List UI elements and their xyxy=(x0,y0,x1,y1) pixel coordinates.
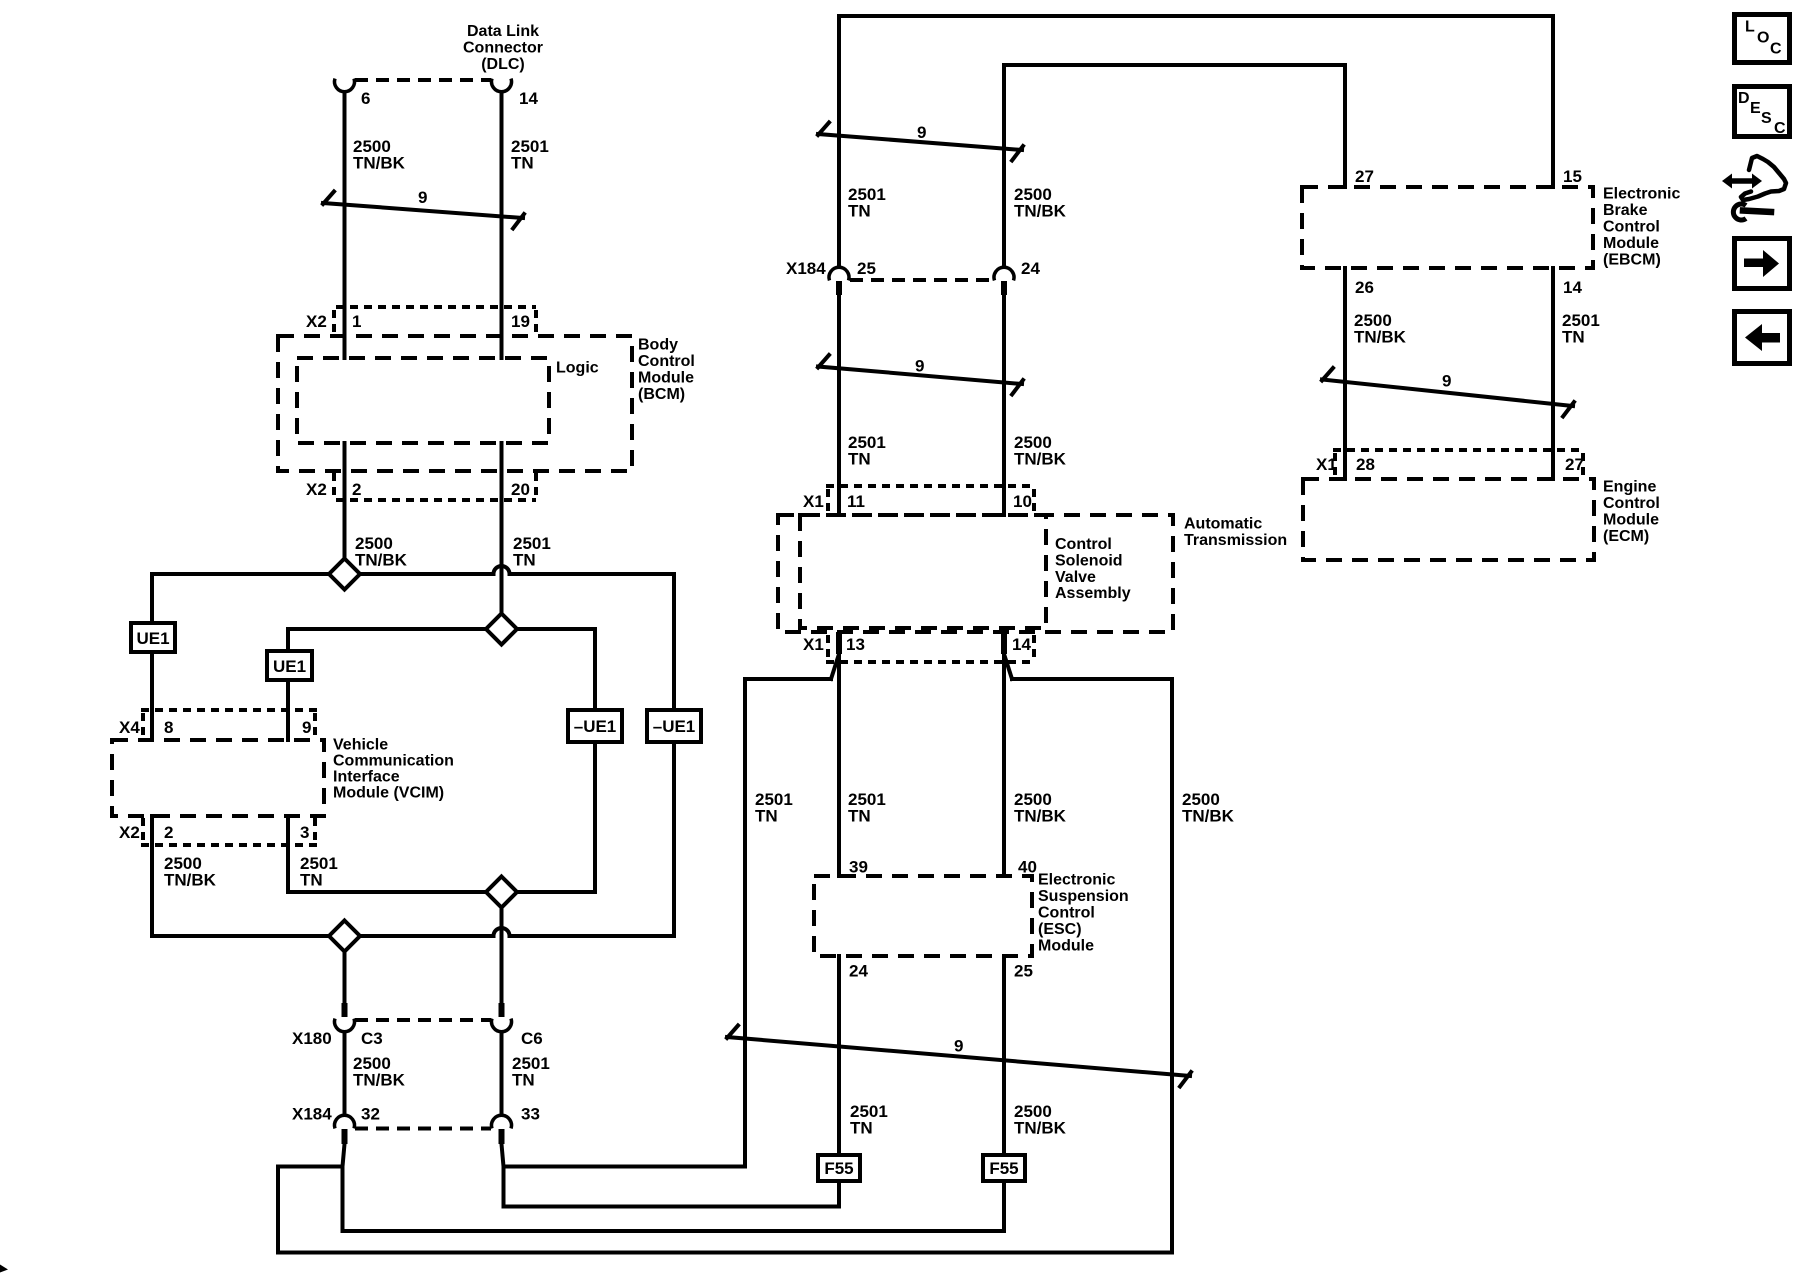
svg-text:25: 25 xyxy=(1014,962,1033,981)
wire 2500 TN/BK splice down to X180 xyxy=(343,952,347,1004)
label Automatic Transmission xyxy=(1184,516,1287,550)
terminator box -UE1 outer xyxy=(647,710,701,742)
pin 14 label EBCM xyxy=(1563,278,1582,297)
twisted pair symbol with 9 xyxy=(323,192,524,229)
terminal stub X184 pin 33 xyxy=(499,1129,505,1144)
svg-text:20: 20 xyxy=(511,480,530,499)
svg-text:BodyControlModule(BCM): BodyControlModule(BCM) xyxy=(638,337,695,404)
connector strip X2 bottom of BCM xyxy=(334,473,536,500)
wire riser 2501 TN to transmission pin 13 xyxy=(745,654,839,1167)
X184 connector dashed mating line xyxy=(355,1127,491,1131)
pin 32 label xyxy=(361,1105,380,1124)
svg-text:40: 40 xyxy=(1018,858,1037,877)
wire bus to F55 2501 xyxy=(504,1205,840,1209)
svg-text:1: 1 xyxy=(352,312,361,331)
svg-text:2501TN: 2501TN xyxy=(755,790,793,826)
label X184 center xyxy=(786,259,826,278)
wire label 2501 TN below EBCM xyxy=(1562,311,1600,347)
connector X184 center cup pin 24 xyxy=(994,267,1014,280)
wire top link 2501 TN to EBCM pin 15 xyxy=(839,16,1553,266)
wire 2500 TN/BK X180 to X184 pin 32 xyxy=(343,1033,347,1114)
svg-text:X2: X2 xyxy=(306,480,327,499)
svg-text:ElectronicSuspensionControl(ES: ElectronicSuspensionControl(ESC)Module xyxy=(1038,872,1129,955)
svg-text:2501TN: 2501TN xyxy=(300,854,338,890)
svg-text:2500TN/BK: 2500TN/BK xyxy=(1014,1102,1067,1138)
wire label 2501 TN below VCIM xyxy=(300,854,338,890)
svg-text:2501TN: 2501TN xyxy=(1562,311,1600,347)
twisted pair symbol above transmission with 9 xyxy=(818,355,1023,395)
terminal stub X180 C6 xyxy=(499,1003,505,1017)
wire label 2500 TN/BK below EBCM xyxy=(1354,311,1407,347)
svg-text:2500TN/BK: 2500TN/BK xyxy=(1014,185,1067,221)
wire label 2501 TN above F55 xyxy=(850,1102,888,1138)
icon car with double arrow and wrench xyxy=(1722,156,1786,220)
connector X184 center cup pin 25 xyxy=(829,267,849,280)
wire 2501 TN X180 to X184 pin 33 xyxy=(500,1033,504,1114)
svg-text:3: 3 xyxy=(300,823,309,842)
svg-text:11: 11 xyxy=(847,492,865,511)
svg-text:–UE1: –UE1 xyxy=(574,717,617,736)
svg-text:C: C xyxy=(1770,41,1782,58)
splice diamond on inner top bus 2501 xyxy=(486,614,517,645)
wire inner bus top horizontal xyxy=(288,627,595,631)
wire 2500 TN/BK transmission pin 14 to ESC pin 40 xyxy=(1002,654,1006,876)
terminator box -UE1 inner xyxy=(568,710,622,742)
wire label 2501 TN at X180 xyxy=(512,1054,550,1090)
pin 2 label xyxy=(352,480,361,499)
label X184 xyxy=(292,1105,332,1124)
wire 2500 TN/BK X184 to transmission pin 10 xyxy=(1002,295,1006,515)
icon box LOC xyxy=(1735,15,1790,63)
svg-text:2501TN: 2501TN xyxy=(848,185,886,221)
wire hop of top bus over 2501 wire xyxy=(494,566,510,574)
pin 14 label xyxy=(519,89,538,108)
label Body Control Module (BCM) xyxy=(638,337,695,404)
icon box arrow left xyxy=(1735,312,1790,364)
pin 27 label EBCM xyxy=(1355,167,1374,186)
svg-text:2500TN/BK: 2500TN/BK xyxy=(1354,311,1407,347)
svg-text:6: 6 xyxy=(361,89,370,108)
label 9 center top xyxy=(917,123,926,142)
module box Automatic Transmission xyxy=(778,515,1173,632)
wire 2501 TN X184 to transmission pin 11 xyxy=(837,295,841,515)
label X2 VCIM xyxy=(119,823,140,842)
pin 20 label xyxy=(511,480,530,499)
twisted pair symbol below ESC with 9 xyxy=(727,1026,1191,1087)
wire bottom bus to F55 2500 xyxy=(343,1229,1005,1233)
connector strip X2 top of BCM xyxy=(334,307,536,334)
svg-text:2501TN: 2501TN xyxy=(513,534,551,570)
pin 15 label EBCM xyxy=(1563,167,1582,186)
wire label 2500 TN/BK xyxy=(353,137,406,173)
svg-text:F55: F55 xyxy=(989,1159,1018,1178)
pin 26 label EBCM xyxy=(1355,278,1374,297)
wire second link 2500 TN/BK to EBCM pin 27 xyxy=(1004,65,1345,266)
svg-text:10: 10 xyxy=(1013,492,1032,511)
wire outer right vertical through terminator xyxy=(672,574,676,936)
wire label 2500 TN/BK above F55 xyxy=(1014,1102,1067,1138)
connector X180 cup C6 xyxy=(492,1019,512,1032)
pin 28 label xyxy=(1356,455,1375,474)
wire label 2500 TN/BK at X180 xyxy=(353,1054,406,1090)
fuse box UE1 on pin 8 wire xyxy=(131,623,175,652)
wire label 2501 TN xyxy=(511,137,549,173)
svg-text:14: 14 xyxy=(1012,635,1031,654)
svg-text:14: 14 xyxy=(1563,278,1582,297)
splice diamond on top bus 2500 xyxy=(329,559,360,590)
wire label 2501 TN above X184 xyxy=(848,185,886,221)
svg-text:Logic: Logic xyxy=(556,360,599,377)
wire riser 2500 TN/BK to transmission pin 14 xyxy=(1004,654,1172,1253)
wire X184 pin 32 double crimp to left riser xyxy=(278,1144,345,1253)
svg-text:14: 14 xyxy=(519,89,538,108)
svg-text:24: 24 xyxy=(849,962,868,981)
label X1 bottom xyxy=(803,635,824,654)
wire X184 pin 33 down leg xyxy=(502,1167,506,1207)
svg-text:S: S xyxy=(1761,110,1772,127)
wire VCIM pin 2 down to outer bottom bus xyxy=(150,816,154,936)
connector X84 DLC cup pin 14 xyxy=(492,79,512,92)
svg-text:ControlSolenoidValveAssembly: ControlSolenoidValveAssembly xyxy=(1055,536,1131,602)
svg-text:C6: C6 xyxy=(521,1029,543,1048)
label Engine Control Module (ECM) xyxy=(1603,479,1660,546)
svg-text:EngineControlModule(ECM): EngineControlModule(ECM) xyxy=(1603,479,1660,546)
svg-text:ElectronicBrakeControlModule(E: ElectronicBrakeControlModule(EBCM) xyxy=(1603,186,1680,269)
pin 19 label xyxy=(511,312,530,331)
svg-text:9: 9 xyxy=(917,123,926,142)
connector X84 DLC cup pin 6 xyxy=(335,79,355,92)
svg-text:2: 2 xyxy=(352,480,361,499)
svg-text:C3: C3 xyxy=(361,1029,383,1048)
svg-text:2501TN: 2501TN xyxy=(850,1102,888,1138)
svg-text:X1: X1 xyxy=(803,492,824,511)
splice diamond on inner bottom bus 2501 xyxy=(486,877,517,908)
wire label 2501 TN riser left xyxy=(755,790,793,826)
svg-text:–UE1: –UE1 xyxy=(653,717,696,736)
wire label 2500 TN/BK riser right xyxy=(1182,790,1235,826)
label Logic xyxy=(556,360,599,377)
svg-text:O: O xyxy=(1757,30,1769,47)
label X1 top xyxy=(803,492,824,511)
twisted pair symbol above ECM with 9 xyxy=(1322,368,1574,417)
svg-text:X4: X4 xyxy=(119,718,140,737)
pin C3 label xyxy=(361,1029,383,1048)
terminal stub transmission pin 13 xyxy=(836,632,842,654)
wire 2501 TN transmission pin 13 to ESC pin 39 xyxy=(837,654,841,876)
wire 2501 TN EBCM pin 14 to ECM pin 27 xyxy=(1551,268,1555,479)
label X180 xyxy=(292,1029,332,1048)
svg-text:2: 2 xyxy=(164,823,173,842)
svg-text:24: 24 xyxy=(1021,259,1040,278)
connector X184 cup pin 33 xyxy=(492,1115,512,1128)
svg-text:27: 27 xyxy=(1355,167,1374,186)
svg-text:9: 9 xyxy=(915,357,924,376)
svg-text:9: 9 xyxy=(954,1037,963,1056)
wire 2500 TN/BK EBCM pin 26 to ECM pin 28 xyxy=(1343,268,1347,479)
terminal stub X184 pin 25 xyxy=(836,281,842,295)
label 9 below ESC xyxy=(954,1037,963,1056)
label X1 ECM xyxy=(1316,455,1337,474)
svg-text:27: 27 xyxy=(1565,455,1584,474)
X180 connector dashed mating line xyxy=(355,1018,491,1022)
label X2 bottom xyxy=(306,480,327,499)
svg-text:8: 8 xyxy=(164,718,173,737)
svg-text:9: 9 xyxy=(302,718,311,737)
wire bottom bus to transmission pin 14 riser xyxy=(278,1251,1172,1255)
pin 1 label xyxy=(352,312,361,331)
pin 6 label xyxy=(361,89,370,108)
svg-text:UE1: UE1 xyxy=(136,629,169,648)
module box Engine Control Module (ECM) xyxy=(1303,479,1594,560)
svg-text:D: D xyxy=(1738,90,1750,107)
connector strip X4 top of VCIM xyxy=(141,710,317,738)
label Electronic Suspension Control (ESC) Module xyxy=(1038,872,1129,955)
pin 13 label xyxy=(846,635,865,654)
module box Electronic Brake Control Module (EBCM) xyxy=(1302,187,1593,268)
svg-text:VehicleCommunicationInterfaceM: VehicleCommunicationInterfaceModule (VCI… xyxy=(333,737,454,802)
svg-text:33: 33 xyxy=(521,1105,540,1124)
svg-text:26: 26 xyxy=(1355,278,1374,297)
wire outer bottom bus horizontal xyxy=(152,934,674,938)
wire ESC pin 25 to F55 xyxy=(1002,956,1006,1155)
wire inner right vertical through terminator xyxy=(593,629,597,892)
svg-text:2500TN/BK: 2500TN/BK xyxy=(1014,790,1067,826)
corner tick mark xyxy=(0,1265,8,1273)
pin C6 label xyxy=(521,1029,543,1048)
terminal stub X180 C3 xyxy=(342,1003,348,1017)
connector X184 cup pin 32 xyxy=(335,1115,355,1128)
label 9 above ECM xyxy=(1442,372,1451,391)
wire label 2501 TN above ESC xyxy=(848,790,886,826)
svg-text:9: 9 xyxy=(418,188,427,207)
terminal stub X184 pin 24 xyxy=(1001,281,1007,295)
svg-text:X180: X180 xyxy=(292,1029,332,1048)
svg-text:2501TN: 2501TN xyxy=(848,790,886,826)
connector strip X1 top of ECM xyxy=(1333,450,1585,477)
pin 3 label VCIM xyxy=(300,823,309,842)
icon box DESC xyxy=(1735,87,1790,138)
pin 24 label xyxy=(1021,259,1040,278)
svg-text:2500TN/BK: 2500TN/BK xyxy=(1014,433,1067,469)
label Vehicle Communication Interface Module (VCIM) xyxy=(333,737,454,802)
label Control Solenoid Valve Assembly xyxy=(1055,536,1131,602)
connector strip X1 top of transmission xyxy=(826,486,1036,513)
module box Body Control Module (BCM) xyxy=(278,336,632,471)
module box Vehicle Communication Interface Module (VCIM) xyxy=(112,740,324,816)
wire label 2501 TN above transmission xyxy=(848,433,886,469)
svg-text:UE1: UE1 xyxy=(273,657,306,676)
wire label 2501 TN below BCM xyxy=(513,534,551,570)
svg-text:AutomaticTransmission: AutomaticTransmission xyxy=(1184,516,1287,550)
DLC connector dashed mating line xyxy=(355,78,491,82)
label Data Link Connector (DLC) xyxy=(463,23,543,73)
wire 2501 TN crossing bottom bus xyxy=(500,908,504,1004)
wire label 2500 TN/BK below BCM xyxy=(355,534,408,570)
pin 39 label xyxy=(849,858,868,877)
svg-text:2501TN: 2501TN xyxy=(512,1054,550,1090)
label 9 above transmission xyxy=(915,357,924,376)
svg-text:E: E xyxy=(1750,100,1761,117)
svg-text:X2: X2 xyxy=(306,312,327,331)
inner box control solenoid valve assembly xyxy=(800,515,1046,628)
svg-text:2500TN/BK: 2500TN/BK xyxy=(353,137,406,173)
svg-text:15: 15 xyxy=(1563,167,1582,186)
wire inner bottom bus horizontal xyxy=(288,890,595,894)
svg-text:2500TN/BK: 2500TN/BK xyxy=(164,854,217,890)
pin 27 label ECM xyxy=(1565,455,1584,474)
connector strip X1 bottom of transmission xyxy=(826,635,1036,662)
wire X184 pin 33 double crimp to right riser xyxy=(502,1144,746,1167)
wire VCIM pin 3 down to inner bottom bus xyxy=(286,816,290,892)
icon box arrow right xyxy=(1735,239,1790,289)
wire inner left vertical to VCIM pin 9 xyxy=(286,629,290,740)
svg-text:X184: X184 xyxy=(292,1105,332,1124)
wire outer left vertical to VCIM pin 8 xyxy=(150,574,154,740)
svg-text:25: 25 xyxy=(857,259,876,278)
connector strip X2 bottom of VCIM xyxy=(141,818,317,845)
wire label 2500 TN/BK below VCIM xyxy=(164,854,217,890)
wire label 2500 TN/BK above transmission xyxy=(1014,433,1067,469)
pin 2 label VCIM xyxy=(164,823,173,842)
label 9 xyxy=(418,188,427,207)
module box Electronic Suspension Control (ESC) Module xyxy=(814,876,1032,956)
svg-text:2501TN: 2501TN xyxy=(511,137,549,173)
pin 8 label xyxy=(164,718,173,737)
svg-text:19: 19 xyxy=(511,312,530,331)
pin 11 label xyxy=(847,492,865,511)
wire label 2500 TN/BK above ESC xyxy=(1014,790,1067,826)
svg-text:X1: X1 xyxy=(1316,455,1337,474)
fuse F55 on 2501 TN xyxy=(818,1155,860,1181)
svg-text:C: C xyxy=(1774,120,1786,137)
svg-text:X2: X2 xyxy=(119,823,140,842)
twisted pair symbol center top with 9 xyxy=(818,123,1023,161)
X184 center dashed mating line xyxy=(850,278,993,282)
svg-text:X184: X184 xyxy=(786,259,826,278)
terminal stub transmission pin 14 xyxy=(1001,632,1007,654)
wire 2501 TN from DLC pin 14 down to BCM logic xyxy=(500,92,504,358)
pin 40 label xyxy=(1018,858,1037,877)
wire below F55 2500 xyxy=(1002,1181,1006,1231)
pin 25 label xyxy=(857,259,876,278)
svg-text:X1: X1 xyxy=(803,635,824,654)
fuse F55 on 2500 TN/BK xyxy=(983,1155,1025,1181)
pin 33 label xyxy=(521,1105,540,1124)
label X4 xyxy=(119,718,140,737)
terminal stub X184 pin 32 xyxy=(342,1129,348,1144)
wire 2500 TN/BK from DLC pin 6 down to BCM logic xyxy=(343,92,347,358)
wire hop of bottom bus over 2501 wire xyxy=(494,928,510,936)
wire X184 pin 32 down leg xyxy=(341,1167,345,1232)
wire label 2500 TN/BK above X184 xyxy=(1014,185,1067,221)
svg-text:2500TN/BK: 2500TN/BK xyxy=(355,534,408,570)
svg-text:2500TN/BK: 2500TN/BK xyxy=(1182,790,1235,826)
fuse box UE1 on pin 9 wire xyxy=(267,651,312,680)
svg-text:2501TN: 2501TN xyxy=(848,433,886,469)
wire 2500 TN/BK BCM pin 2 to splice xyxy=(343,443,347,559)
svg-text:32: 32 xyxy=(361,1105,380,1124)
wire outer bus top horizontal xyxy=(152,572,674,576)
svg-text:39: 39 xyxy=(849,858,868,877)
svg-text:L: L xyxy=(1745,19,1755,36)
label Electronic Brake Control Module (EBCM) xyxy=(1603,186,1680,269)
logic box inside BCM xyxy=(297,358,549,443)
splice diamond on outer bottom bus 2500 xyxy=(329,921,360,952)
label X2 xyxy=(306,312,327,331)
svg-text:9: 9 xyxy=(1442,372,1451,391)
svg-text:2500TN/BK: 2500TN/BK xyxy=(353,1054,406,1090)
wire 2501 TN BCM pin 20 to splice xyxy=(500,443,504,614)
svg-text:Data LinkConnector(DLC): Data LinkConnector(DLC) xyxy=(463,23,543,73)
wire below F55 2501 xyxy=(837,1181,841,1207)
svg-text:28: 28 xyxy=(1356,455,1375,474)
svg-text:F55: F55 xyxy=(824,1159,853,1178)
pin 9 label xyxy=(302,718,311,737)
pin 24 label ESC xyxy=(849,962,868,981)
connector X180 cup C3 xyxy=(335,1019,355,1032)
pin 10 label xyxy=(1013,492,1032,511)
pin 25 label ESC xyxy=(1014,962,1033,981)
svg-text:13: 13 xyxy=(846,635,865,654)
wire ESC pin 24 to F55 xyxy=(837,956,841,1155)
pin 14 label xyxy=(1012,635,1031,654)
